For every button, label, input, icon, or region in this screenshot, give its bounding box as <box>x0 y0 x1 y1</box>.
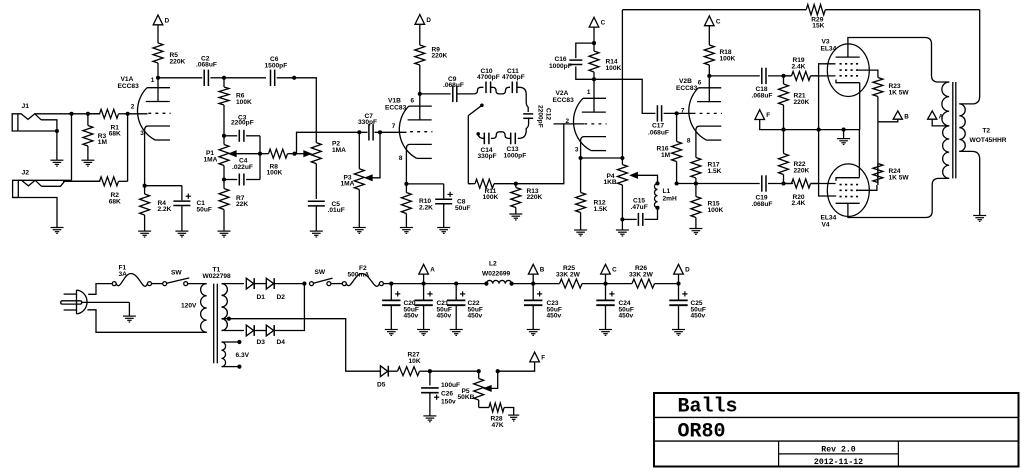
wire V1A plate lead <box>157 78 159 102</box>
capacitor C6 1500pF <box>265 56 288 86</box>
capacitor C14 330pF <box>478 133 497 161</box>
junction V1B cathode node <box>404 182 408 186</box>
wire C19 to R20/R22 <box>768 183 793 185</box>
svg-text:220K: 220K <box>527 194 543 201</box>
wire R20 to V4 g1 <box>811 183 836 185</box>
wire V3 cathode down <box>859 83 861 130</box>
transformer T1 labels <box>203 267 232 280</box>
diode D2 <box>266 278 285 301</box>
transformer T2 secondary <box>959 104 1006 151</box>
svg-text:1K 5W: 1K 5W <box>889 89 910 96</box>
svg-text:W022699: W022699 <box>482 270 511 277</box>
wiper arrow P1 <box>230 151 261 156</box>
connector J1 (input jack) <box>12 103 41 131</box>
resistor R12 1.5K <box>576 158 608 230</box>
wire J2 sleeve to ground <box>13 198 57 228</box>
junction rectifier out <box>302 282 306 286</box>
junction P4 bottom <box>620 217 624 221</box>
wire V2B cathode lead <box>695 130 697 157</box>
svg-text:C12: C12 <box>545 108 552 120</box>
wire C21 to C22 <box>424 283 457 285</box>
switch contact dot upper <box>480 104 484 108</box>
wire HV bottom to D3 <box>222 330 245 332</box>
svg-text:C: C <box>716 18 721 25</box>
svg-text:.01uF: .01uF <box>328 207 345 214</box>
svg-text:100uF: 100uF <box>441 382 460 389</box>
wire J1 shorting contact to sleeve/ground <box>18 120 57 160</box>
ground R7 <box>218 231 231 237</box>
wire D to R5 <box>157 25 159 41</box>
tube V3 EL34 <box>821 39 870 97</box>
svg-text:C: C <box>601 20 606 27</box>
ground R12 <box>574 230 587 236</box>
svg-text:3: 3 <box>140 130 144 137</box>
capacitor C7 330pF <box>358 113 380 141</box>
wire J2 tip <box>18 179 71 181</box>
wire cathodyne rail <box>677 183 760 185</box>
wire V2A cathode lead <box>580 141 582 158</box>
capacitor C18 .068uF <box>752 68 773 100</box>
wire secondary top to NFB <box>959 10 979 104</box>
wire D3-D4 <box>254 330 266 332</box>
svg-text:L1: L1 <box>663 188 671 195</box>
wire cathode ground stub <box>843 130 845 139</box>
svg-text:.47uF: .47uF <box>631 204 648 211</box>
svg-text:220K: 220K <box>794 99 810 106</box>
svg-text:1M: 1M <box>661 152 671 159</box>
capacitor C10 4700pF <box>477 68 500 93</box>
potentiometer P1 1MA <box>204 136 230 180</box>
svg-text:330pF: 330pF <box>358 119 377 126</box>
resistor R25 33K 2W <box>533 265 605 288</box>
resistor R4 2.2K <box>140 186 172 231</box>
svg-text:33K 2W: 33K 2W <box>629 271 654 278</box>
junction ground stub <box>842 128 846 132</box>
wire center tap to bias <box>222 319 381 372</box>
resistor R17 1.5K <box>691 158 722 184</box>
svg-text:1.5K: 1.5K <box>708 168 722 175</box>
junction V1A plate node <box>156 76 160 80</box>
svg-text:450v: 450v <box>437 313 452 320</box>
wiper arrow P3 <box>366 132 381 180</box>
ground mains <box>123 316 136 322</box>
resistor R20 2.4K <box>784 179 819 207</box>
junction C26 top <box>428 369 432 373</box>
svg-text:ECC83: ECC83 <box>118 83 140 90</box>
resistor R21 220K <box>779 76 810 130</box>
potentiometer P2 1MA <box>311 141 346 199</box>
svg-text:47K: 47K <box>492 422 504 429</box>
switch SW (mains) <box>163 270 190 286</box>
wire arc up to C10 <box>473 87 483 94</box>
power node F (bias to PI) <box>755 110 770 120</box>
svg-text:A: A <box>430 267 435 274</box>
ground R15 <box>689 229 702 235</box>
resistor R5 220K <box>153 40 186 78</box>
power node B (supply) <box>528 264 544 283</box>
wire fuse to switch <box>152 283 163 285</box>
svg-text:V3: V3 <box>822 39 830 46</box>
wire F to divider mid <box>760 119 782 129</box>
svg-text:.068uF: .068uF <box>196 62 217 69</box>
wire cathode to C8 <box>406 184 443 199</box>
capacitor C1 50uF <box>173 194 211 214</box>
wire rail to R11 <box>468 183 471 185</box>
svg-text:V4: V4 <box>822 222 830 229</box>
resistor R27 10K <box>388 352 430 376</box>
connector J2 (input jack) <box>13 170 42 198</box>
svg-text:D4: D4 <box>277 339 286 346</box>
capacitor C9 .068uF <box>443 76 464 102</box>
wire C2 to R6 node <box>210 77 224 79</box>
switch contact dot lower <box>476 132 480 136</box>
svg-text:WOT45HHR: WOT45HHR <box>970 137 1007 144</box>
capacitor C8 50uF <box>435 192 470 212</box>
wire P5 to R28 <box>479 407 489 409</box>
svg-text:68K: 68K <box>109 198 121 205</box>
svg-text:.068uF: .068uF <box>648 129 669 136</box>
svg-text:100K: 100K <box>708 207 724 214</box>
wire cathode to P4 <box>581 157 623 159</box>
svg-text:50uF: 50uF <box>455 205 470 212</box>
svg-text:D2: D2 <box>277 294 286 301</box>
junction C21 <box>422 282 426 286</box>
wire J1/J2 common vertical <box>71 114 73 181</box>
power plug <box>61 290 87 314</box>
wiper arrow P2 <box>295 151 311 156</box>
wire HV top to D1 <box>222 283 245 285</box>
svg-text:1MA: 1MA <box>341 181 355 188</box>
ground R28 <box>508 415 519 421</box>
svg-text:.068uF: .068uF <box>752 201 773 208</box>
junction R21/R22 mid (bias line) <box>781 128 785 132</box>
transformer T1 core <box>214 284 218 364</box>
wire C18 to R19/R21 <box>768 75 792 77</box>
svg-text:6: 6 <box>411 98 415 105</box>
wire V2B plate lead <box>708 76 710 102</box>
junction C7 left <box>357 130 361 134</box>
svg-text:J2: J2 <box>22 170 30 177</box>
svg-text:V1B: V1B <box>388 98 401 105</box>
svg-text:100K: 100K <box>606 65 622 72</box>
ground R3 <box>81 160 94 166</box>
wire plug neutral to T1 <box>82 302 129 316</box>
wire plug bottom to T1 return <box>87 310 206 333</box>
svg-text:450v: 450v <box>404 313 419 320</box>
wire F2 to C20 <box>383 283 391 285</box>
tube V2B ECC83 triode <box>676 78 722 144</box>
capacitor C21 50uF 450v <box>414 284 451 336</box>
wire C15 to P4 bottom <box>622 218 636 220</box>
diode D4 <box>266 325 285 346</box>
wire V2B plate to C18 <box>709 75 760 77</box>
junction V1A cathode node <box>143 184 147 188</box>
ground T2 <box>973 216 986 222</box>
tube V4 EL34 <box>821 164 870 229</box>
resistor R13 220K <box>511 184 543 214</box>
wire R8 to P2 wiper/grid riser <box>295 132 360 153</box>
wire J2 shorting to R2 <box>42 181 101 186</box>
svg-text:ECC83: ECC83 <box>385 105 407 112</box>
transformer T1 HV secondary <box>222 284 228 331</box>
svg-text:D3: D3 <box>257 339 266 346</box>
junction P5 top <box>477 369 481 373</box>
svg-text:1500pF: 1500pF <box>265 62 288 69</box>
junction C4 bottom <box>222 177 226 181</box>
resistor R6 100K <box>219 78 252 136</box>
junction R1 right <box>126 112 130 116</box>
ground J1 <box>50 160 63 166</box>
svg-text:2mH: 2mH <box>663 195 678 202</box>
wire cathode to C1 <box>145 186 182 201</box>
svg-text:V1A: V1A <box>121 76 134 83</box>
wire V2A plate lead <box>593 79 595 112</box>
wire C6 to P2 top <box>277 78 317 143</box>
power node A (plate supply) <box>928 111 944 120</box>
ground C8 <box>437 228 450 234</box>
capacitor C2 .068uF <box>196 55 217 86</box>
svg-text:3A: 3A <box>119 271 128 278</box>
junction V2B plate node <box>707 74 711 78</box>
wire C22 to L2 <box>456 283 486 285</box>
svg-text:F: F <box>541 355 545 362</box>
junction C22 <box>454 282 458 286</box>
svg-text:A: A <box>939 113 944 120</box>
wire V1A cathode lead <box>144 130 146 185</box>
wire C8 to ground <box>443 204 445 228</box>
resistor R11 100K <box>468 179 516 201</box>
junction R14/C16 top <box>592 41 596 45</box>
junction J1 sleeve <box>55 129 59 133</box>
potentiometer P4 1KB <box>604 158 628 219</box>
wiper arrow P4 <box>631 173 658 184</box>
ground R13 <box>509 214 522 220</box>
svg-text:2012-11-12: 2012-11-12 <box>814 458 863 467</box>
junction C7 right / P3 feed <box>378 130 382 134</box>
junction P1 wiper node <box>258 152 262 156</box>
svg-text:3: 3 <box>575 147 579 154</box>
power node D (V1A supply) <box>153 15 169 25</box>
junction cathodyne rail at R17 <box>694 181 698 185</box>
svg-text:B: B <box>904 113 909 120</box>
ground C5 <box>310 231 323 237</box>
ground P3 <box>353 228 366 234</box>
wire C26 to P5 <box>430 370 479 372</box>
resistor R1 68K <box>88 109 128 137</box>
wire V1B plate lead <box>419 94 421 121</box>
switch SW (standby) <box>310 269 333 285</box>
wire D2 to standby <box>274 283 304 285</box>
capacitor C5 .01uF <box>308 201 345 214</box>
wire D4 join up <box>274 284 304 331</box>
wiper arrow P5 <box>485 371 498 391</box>
svg-text:D: D <box>165 17 170 24</box>
svg-text:150v: 150v <box>441 398 456 405</box>
svg-text:33K 2W: 33K 2W <box>556 271 581 278</box>
junction node J1-tip/J2 vertical <box>69 112 73 116</box>
junction R16 top <box>675 111 679 115</box>
junction HV center tap <box>227 317 231 321</box>
svg-text:7: 7 <box>681 108 685 115</box>
svg-text:J1: J1 <box>22 103 30 110</box>
svg-text:220K: 220K <box>170 58 186 65</box>
svg-text:8: 8 <box>687 137 691 144</box>
power node D (supply) <box>674 264 690 283</box>
capacitor C12 2200pF (vertical) <box>523 105 551 128</box>
wire 6.3V leads <box>222 340 242 369</box>
svg-text:SW: SW <box>171 270 182 277</box>
svg-text:2.2K: 2.2K <box>419 204 433 211</box>
resistor R22 220K <box>779 130 810 184</box>
wire V3 plate lead <box>848 38 949 83</box>
resistor R2 68K <box>63 177 128 206</box>
wire C9 to bridged-T <box>457 93 473 95</box>
tube V1A ECC83 triode <box>118 76 171 140</box>
wire V3 screen to R23 <box>858 70 878 75</box>
capacitor C15 .47uF <box>631 197 648 226</box>
inductor L1 2mH <box>654 183 677 207</box>
svg-text:V2B: V2B <box>679 78 692 85</box>
svg-text:22K: 22K <box>236 201 248 208</box>
svg-text:450v: 450v <box>619 313 634 320</box>
svg-text:4700pF: 4700pF <box>502 74 525 81</box>
svg-text:2: 2 <box>131 103 135 110</box>
svg-text:1.5K: 1.5K <box>594 206 608 213</box>
svg-text:SW: SW <box>315 269 326 276</box>
svg-text:10K: 10K <box>409 358 421 365</box>
svg-text:100K: 100K <box>267 170 283 177</box>
svg-text:1M: 1M <box>98 139 108 146</box>
svg-text:C16: C16 <box>555 56 567 63</box>
choke L2 W022699 <box>482 260 514 285</box>
diode D3 <box>246 325 265 346</box>
svg-text:OR80: OR80 <box>678 421 726 444</box>
resistor R9 220K <box>415 42 448 94</box>
capacitor C16 1000pF loop <box>549 43 594 79</box>
capacitor C23 50uF 450v <box>524 284 562 336</box>
svg-text:1: 1 <box>587 89 591 96</box>
svg-text:220K: 220K <box>432 53 448 60</box>
svg-text:6.3V: 6.3V <box>236 352 250 359</box>
fuse F2 500mA <box>342 265 383 286</box>
wire C to R14 <box>593 27 595 43</box>
junction R22 bottom <box>781 181 785 185</box>
transformer T1 primary <box>181 284 207 333</box>
svg-text:7: 7 <box>392 123 396 130</box>
junction C24 <box>603 282 607 286</box>
svg-text:2200pF: 2200pF <box>231 120 254 127</box>
switch blade (FAC) <box>468 105 482 115</box>
power node C (V2A supply) <box>589 17 605 27</box>
svg-text:450v: 450v <box>691 313 706 320</box>
resistor R28 47K <box>489 403 504 429</box>
wire switch common down <box>467 116 469 184</box>
transformer T2 primary <box>942 82 949 178</box>
title block <box>654 393 1019 467</box>
svg-text:1000pF: 1000pF <box>549 63 572 70</box>
wire g3 tie vertical <box>819 64 837 196</box>
svg-text:.068uF: .068uF <box>752 93 773 100</box>
resistor R15 100K <box>691 184 724 229</box>
svg-text:450v: 450v <box>468 313 483 320</box>
power node B (screen supply) <box>893 111 909 120</box>
capacitor C24 50uF 450v <box>596 284 634 336</box>
svg-text:D: D <box>426 17 431 24</box>
capacitor C25 50uF 450v <box>669 284 706 336</box>
svg-text:F: F <box>766 112 770 119</box>
wire D to R9 <box>419 24 421 42</box>
wire C10-C11 dip <box>491 87 510 94</box>
resistor R23 1K 5W <box>873 75 910 122</box>
wire V2A grid entry <box>564 123 584 125</box>
junction R21 top <box>781 74 785 78</box>
resistor R7 22K <box>219 180 248 232</box>
transformer T2 core <box>953 82 956 178</box>
wire C14 to switch contact <box>478 134 484 139</box>
svg-text:2200pF: 2200pF <box>537 105 544 128</box>
junction P5 wiper feed <box>496 369 500 373</box>
svg-text:EL34: EL34 <box>821 215 837 222</box>
svg-text:ECC83: ECC83 <box>676 85 698 92</box>
potentiometer P5 50KB <box>458 371 484 407</box>
capacitor C3 2200pF loop <box>224 115 260 154</box>
wire C7 to V1B grid <box>380 131 407 133</box>
ground C1 <box>175 231 188 237</box>
svg-text:D: D <box>685 267 690 274</box>
capacitor C22 50uF 450v <box>447 284 483 336</box>
wire V4 screen to R24 <box>858 185 877 190</box>
resistor R19 2.4K <box>784 57 819 80</box>
junction V2A plate node <box>592 77 596 81</box>
diode D5 <box>377 366 388 389</box>
resistor R16 1M <box>657 113 682 183</box>
svg-text:ECC83: ECC83 <box>553 97 575 104</box>
svg-text:50KB: 50KB <box>458 394 475 401</box>
wire switch to T1 primary <box>188 283 207 285</box>
capacitor C13 1000pF <box>504 133 527 160</box>
svg-text:500mA: 500mA <box>348 271 370 278</box>
wire C20 to A <box>391 283 423 285</box>
wire C12 to C13 <box>518 118 529 138</box>
junction C25 <box>676 282 680 286</box>
wire bias line to cathodes <box>782 129 860 131</box>
wire V1B cathode lead <box>405 149 407 184</box>
wire R1/R2 right join <box>127 114 129 182</box>
wire C6 branch <box>224 77 266 79</box>
svg-text:330pF: 330pF <box>478 153 497 160</box>
svg-text:220K: 220K <box>794 168 810 175</box>
capacitor C19 .068uF <box>752 175 773 208</box>
power node C (supply) <box>601 264 617 283</box>
svg-text:W022798: W022798 <box>203 273 232 280</box>
svg-text:2.4K: 2.4K <box>792 200 806 207</box>
svg-text:C: C <box>612 267 617 274</box>
junction C20 <box>389 282 393 286</box>
junction on C6 wire <box>292 76 296 80</box>
junction L1 top <box>655 181 659 185</box>
svg-text:L2: L2 <box>489 260 497 267</box>
wire C13-C14 bump <box>491 132 511 139</box>
svg-text:V2A: V2A <box>556 90 569 97</box>
svg-text:1MA: 1MA <box>332 147 346 154</box>
svg-text:4700pF: 4700pF <box>477 74 500 81</box>
resistor R8 100K <box>260 149 295 176</box>
resistor R26 33K 2W <box>606 265 679 288</box>
wire V2A plate to C17 <box>594 79 655 113</box>
svg-text:B: B <box>540 267 545 274</box>
wire NFB riser <box>621 10 623 158</box>
svg-text:D1: D1 <box>257 294 266 301</box>
